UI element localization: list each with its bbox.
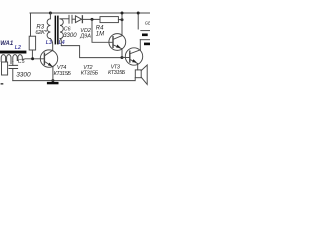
- inductor L2 winding: [13, 55, 24, 62]
- wire C6 to VD2: [72, 18, 75, 20]
- svg-text:3300: 3300: [63, 33, 77, 39]
- wire R3 bottom lead: [31, 50, 33, 59]
- svg-text:L4: L4: [59, 40, 65, 46]
- svg-text:C6: C6: [64, 26, 71, 32]
- node VT2 emitter VT3 base: [121, 56, 124, 59]
- node base VT4 junction: [31, 57, 34, 60]
- wire C5 top lead: [12, 62, 14, 66]
- node battery on rail: [137, 12, 140, 15]
- svg-text:КТ315Б: КТ315Б: [54, 71, 72, 77]
- inductor L1 winding: [1, 55, 11, 64]
- capacitor C6: [69, 15, 72, 23]
- svg-text:Д9А: Д9А: [79, 34, 91, 40]
- transistor VT3: [125, 48, 142, 65]
- transformer T1 core: [55, 16, 57, 45]
- wire VT3 collector to battery: [139, 40, 141, 50]
- node VT4 emitter on rail: [51, 79, 54, 82]
- resistor R4: [100, 17, 118, 23]
- wire L2 to VT4 base: [24, 58, 45, 61]
- wire VD2 to R4: [82, 18, 100, 20]
- wire L3 to VT4 collector: [50, 39, 52, 51]
- wire VD2 node to VT2 base: [92, 19, 113, 42]
- wire top supply rail: [30, 12, 150, 14]
- node R4 to VT2 collector: [121, 18, 124, 21]
- node VT2 collector on rail: [121, 12, 124, 15]
- transistor VT4: [40, 50, 57, 67]
- wire L4 bottom to VT2 emitter node: [60, 39, 122, 58]
- wire R4 right lead: [118, 19, 122, 21]
- svg-text:62K*: 62K*: [35, 30, 47, 36]
- wire L3 top lead: [49, 13, 51, 19]
- svg-text:3300: 3300: [16, 71, 31, 78]
- battery GB1: [141, 30, 150, 32]
- svg-text:C5: C5: [18, 59, 25, 65]
- node detector output: [91, 18, 94, 21]
- capacitor C5: [9, 65, 18, 68]
- diode VD2: [75, 16, 81, 23]
- svg-text:GB1: GB1: [145, 20, 150, 25]
- svg-text:L3: L3: [46, 40, 52, 46]
- wire stub below: [1, 83, 4, 84]
- inductor L3 primary winding: [47, 19, 50, 39]
- transistor VT2: [109, 34, 126, 51]
- wire L4 top to C6: [60, 18, 69, 20]
- node L3 top on rail: [49, 12, 52, 15]
- resistor R3: [29, 36, 35, 50]
- svg-text:1M: 1M: [96, 32, 104, 38]
- ground chassis bar: [47, 82, 59, 84]
- component box under L1: [2, 62, 8, 75]
- wire battery top lead: [137, 13, 139, 29]
- svg-text:КТ315Б: КТ315Б: [108, 70, 126, 76]
- wire bottom ground rail: [13, 78, 135, 81]
- svg-text:WA1: WA1: [0, 41, 14, 47]
- svg-text:КТ315Б: КТ315Б: [81, 70, 99, 76]
- antenna WA1 ferrite rod: [0, 51, 26, 54]
- wire R3 top lead: [30, 13, 32, 36]
- speaker BA1: [135, 70, 141, 78]
- wire VT2 collector to rail: [121, 13, 123, 36]
- svg-text:L2: L2: [15, 45, 21, 51]
- wire C5 bottom lead: [12, 69, 14, 81]
- inductor L4 secondary winding: [60, 19, 63, 39]
